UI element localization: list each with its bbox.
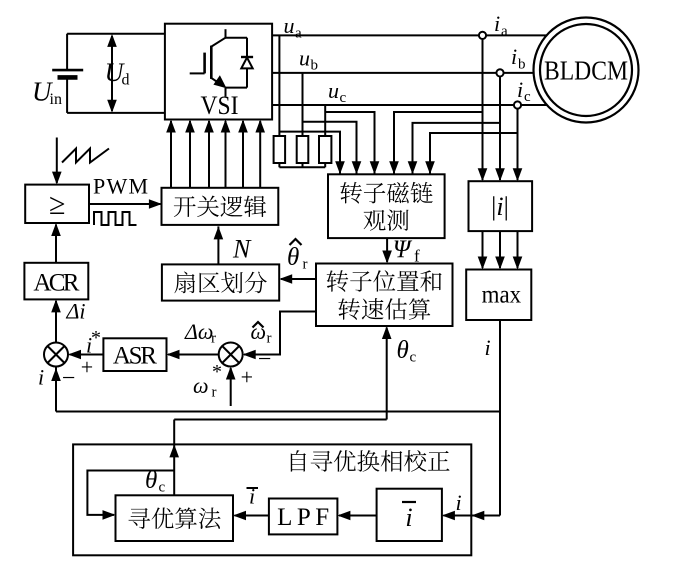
- svg-text:i: i: [405, 503, 412, 532]
- svg-text:VSI: VSI: [201, 91, 239, 120]
- svg-text:a: a: [295, 26, 302, 42]
- svg-text:θ: θ: [287, 244, 299, 271]
- svg-text:−: −: [258, 347, 272, 373]
- svg-text:d: d: [122, 72, 130, 89]
- svg-text:Δω: Δω: [184, 319, 213, 344]
- svg-text:|i|: |i|: [491, 192, 509, 221]
- svg-text:N: N: [232, 235, 252, 264]
- svg-text:i: i: [517, 77, 523, 102]
- svg-text:ACR: ACR: [33, 269, 79, 296]
- svg-text:PWM: PWM: [93, 174, 148, 199]
- svg-text:i: i: [511, 44, 517, 69]
- svg-text:≥: ≥: [49, 188, 65, 221]
- svg-text:ASR: ASR: [113, 343, 157, 370]
- svg-text:b: b: [311, 58, 319, 74]
- svg-text:max: max: [482, 282, 522, 309]
- svg-text:BLDCM: BLDCM: [544, 56, 628, 86]
- svg-text:*: *: [212, 361, 222, 383]
- svg-text:r: r: [211, 331, 216, 347]
- svg-text:u: u: [299, 46, 310, 71]
- svg-text:u: u: [328, 78, 339, 103]
- svg-text:u: u: [284, 13, 295, 38]
- svg-text:θ: θ: [397, 337, 409, 364]
- svg-text:ω: ω: [193, 373, 209, 398]
- svg-text:i: i: [38, 365, 44, 390]
- svg-text:Δi: Δi: [66, 299, 86, 324]
- svg-text:r: r: [267, 331, 272, 347]
- svg-text:i: i: [485, 335, 491, 360]
- svg-text:in: in: [50, 91, 62, 108]
- svg-text:−: −: [62, 366, 76, 392]
- svg-text:*: *: [91, 327, 101, 349]
- svg-text:b: b: [518, 57, 526, 73]
- svg-text:LPF: LPF: [277, 504, 329, 531]
- svg-text:Ψ: Ψ: [393, 236, 413, 263]
- svg-text:r: r: [212, 385, 217, 401]
- svg-text:i: i: [494, 11, 500, 36]
- svg-text:a: a: [501, 24, 508, 40]
- svg-text:i: i: [456, 490, 462, 515]
- svg-text:c: c: [340, 90, 347, 106]
- svg-text:c: c: [410, 350, 417, 366]
- svg-text:r: r: [303, 257, 308, 273]
- svg-text:+: +: [81, 355, 93, 380]
- svg-text:c: c: [159, 480, 166, 496]
- svg-text:+: +: [241, 365, 253, 390]
- svg-text:c: c: [524, 89, 531, 105]
